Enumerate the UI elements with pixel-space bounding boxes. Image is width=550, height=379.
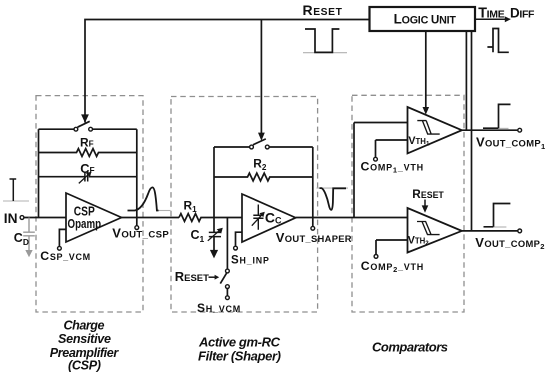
svg-text:IN: IN <box>4 211 18 226</box>
svg-text:Sensitive: Sensitive <box>58 332 111 346</box>
svg-text:SH_VCM: SH_VCM <box>197 301 241 315</box>
svg-text:LOGIC UNIT: LOGIC UNIT <box>394 12 457 27</box>
svg-text:VOUT_SHAPER: VOUT_SHAPER <box>276 230 352 245</box>
svg-text:Opamp: Opamp <box>68 217 102 231</box>
svg-text:CD: CD <box>14 231 29 247</box>
svg-text:CF: CF <box>80 161 94 176</box>
svg-text:COMP2_VTH: COMP2_VTH <box>361 259 424 274</box>
svg-text:VTH2: VTH2 <box>408 235 430 248</box>
svg-text:TIME_DIFF: TIME_DIFF <box>478 5 535 21</box>
svg-text:Active gm-RC: Active gm-RC <box>198 334 281 349</box>
svg-text:CC: CC <box>265 209 282 225</box>
svg-text:R1: R1 <box>184 198 198 213</box>
svg-text:RESET: RESET <box>303 2 343 18</box>
svg-text:SH_INP: SH_INP <box>231 255 270 267</box>
svg-text:C1: C1 <box>191 228 205 244</box>
svg-text:VOUT_CSP: VOUT_CSP <box>112 225 169 240</box>
svg-text:RESET: RESET <box>412 187 444 201</box>
svg-text:VOUT_COMP2: VOUT_COMP2 <box>475 235 545 251</box>
svg-text:(CSP): (CSP) <box>68 359 101 373</box>
svg-text:Comparators: Comparators <box>372 339 448 354</box>
svg-text:CSP_VCM: CSP_VCM <box>40 249 90 263</box>
svg-text:RF: RF <box>80 136 94 150</box>
svg-text:RESET: RESET <box>175 269 209 284</box>
svg-text:Filter (Shaper): Filter (Shaper) <box>198 348 281 363</box>
svg-text:VOUT_COMP1: VOUT_COMP1 <box>476 135 546 151</box>
svg-text:VTH1: VTH1 <box>408 135 430 148</box>
svg-text:COMP1_VTH: COMP1_VTH <box>361 159 424 174</box>
svg-text:R2: R2 <box>253 157 267 172</box>
svg-text:Charge: Charge <box>64 318 105 332</box>
